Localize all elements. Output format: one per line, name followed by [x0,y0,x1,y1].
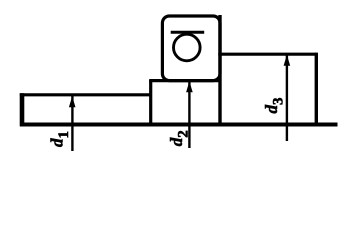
dimension line d2 [188,82,190,149]
shaft section d1 left end face [20,93,25,126]
dimension line d1 [71,96,73,151]
shaft right end face [315,53,318,126]
arrowhead d3 [284,55,291,66]
roller housing (rounded box on d2 step) [162,16,220,81]
roller tangent line [171,31,205,34]
roller circle [174,34,201,61]
arrowhead d1 [69,96,76,107]
shaft section d2 top line [149,79,220,82]
shaft section d3 top line [218,53,316,56]
step shoulder d2/d3 [218,15,221,126]
arrowhead d2 [186,81,193,92]
shaft section d1 top line [20,93,151,96]
dimension line d3 [286,55,288,141]
shaft bottom line / axis baseline [20,123,338,127]
step shoulder d1/d2 [149,80,152,126]
